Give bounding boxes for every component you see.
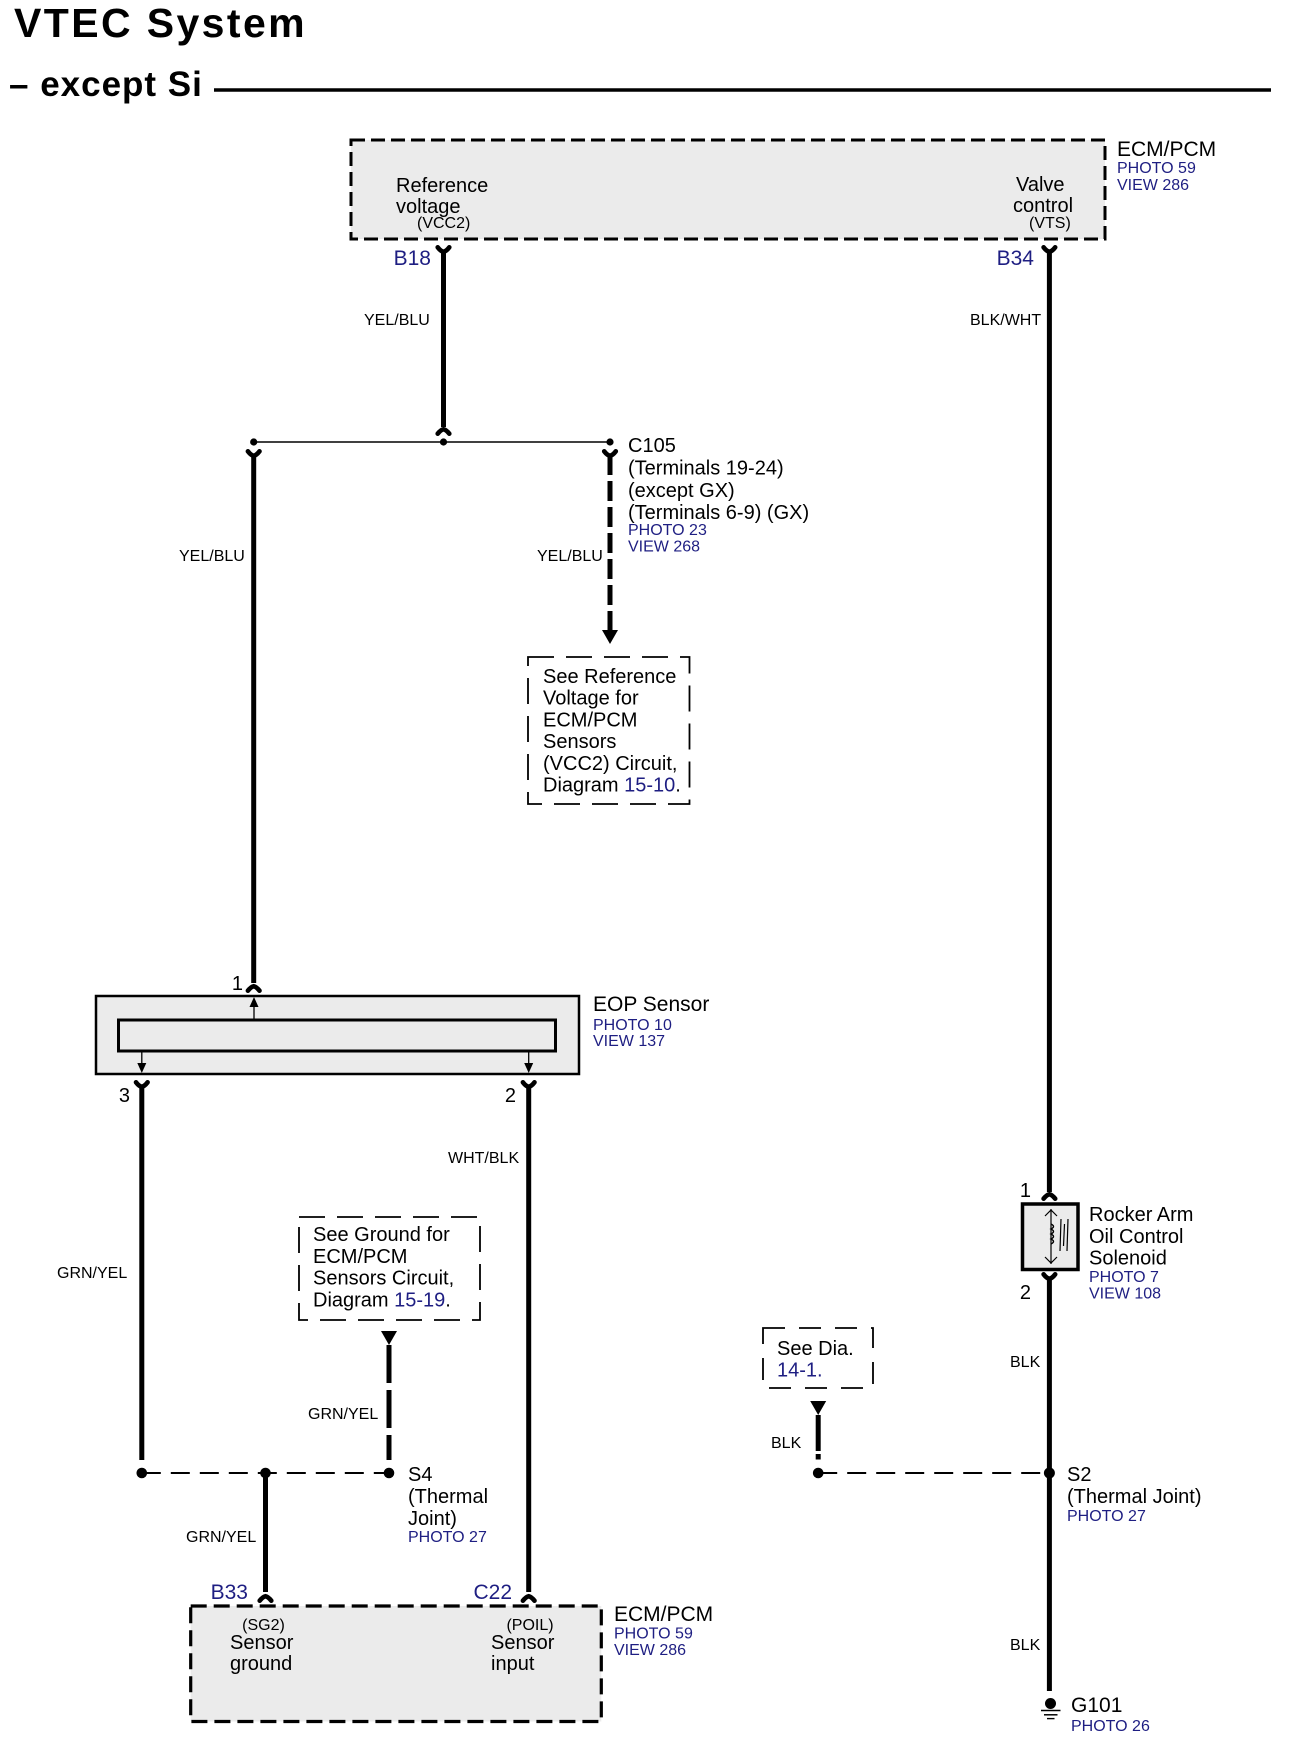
svg-text:Valve: Valve: [1016, 174, 1065, 196]
svg-text:C22: C22: [473, 1581, 512, 1604]
svg-text:B33: B33: [211, 1581, 248, 1604]
svg-text:VTEC System: VTEC System: [14, 0, 307, 46]
svg-text:GRN/YEL: GRN/YEL: [186, 1529, 256, 1546]
svg-text:Voltage for: Voltage for: [543, 688, 639, 710]
svg-text:PHOTO 26: PHOTO 26: [1071, 1718, 1150, 1735]
svg-text:S4: S4: [408, 1464, 432, 1486]
svg-text:See Reference: See Reference: [543, 666, 676, 688]
svg-text:VIEW 286: VIEW 286: [614, 1642, 686, 1659]
svg-text:PHOTO 7: PHOTO 7: [1089, 1269, 1159, 1286]
svg-text:ECM/PCM: ECM/PCM: [614, 1603, 713, 1626]
svg-text:YEL/BLU: YEL/BLU: [179, 548, 245, 565]
svg-text:14-1.: 14-1.: [777, 1360, 823, 1382]
svg-text:BLK: BLK: [1010, 1637, 1041, 1654]
svg-text:VIEW 108: VIEW 108: [1089, 1286, 1161, 1303]
svg-text:GRN/YEL: GRN/YEL: [57, 1265, 127, 1282]
svg-text:Sensors: Sensors: [543, 731, 616, 753]
svg-text:Joint): Joint): [408, 1508, 457, 1530]
svg-text:(VCC2) Circuit,: (VCC2) Circuit,: [543, 753, 677, 775]
svg-text:1: 1: [232, 973, 243, 995]
svg-text:Sensor: Sensor: [230, 1632, 294, 1654]
svg-text:Oil Control: Oil Control: [1089, 1226, 1183, 1248]
svg-text:G101: G101: [1071, 1694, 1122, 1717]
svg-text:VIEW 268: VIEW 268: [628, 539, 700, 556]
svg-text:(Thermal: (Thermal: [408, 1486, 488, 1508]
svg-text:ECM/PCM: ECM/PCM: [543, 709, 637, 731]
svg-text:1: 1: [1020, 1180, 1031, 1202]
svg-text:2: 2: [505, 1085, 516, 1107]
svg-text:BLK: BLK: [1010, 1354, 1041, 1371]
svg-text:Solenoid: Solenoid: [1089, 1248, 1167, 1270]
svg-text:control: control: [1013, 195, 1073, 217]
svg-text:PHOTO 10: PHOTO 10: [593, 1017, 672, 1034]
svg-text:(Thermal Joint): (Thermal Joint): [1067, 1486, 1201, 1508]
svg-text:(except GX): (except GX): [628, 480, 735, 502]
svg-text:3: 3: [119, 1085, 130, 1107]
svg-text:S2: S2: [1067, 1464, 1091, 1486]
svg-text:2: 2: [1020, 1282, 1031, 1304]
svg-text:See Ground for: See Ground for: [313, 1224, 450, 1246]
svg-text:Rocker Arm: Rocker Arm: [1089, 1204, 1193, 1226]
svg-text:VIEW 137: VIEW 137: [593, 1033, 665, 1050]
svg-text:PHOTO 59: PHOTO 59: [1117, 160, 1196, 177]
svg-text:VIEW 286: VIEW 286: [1117, 177, 1189, 194]
svg-text:BLK: BLK: [771, 1435, 802, 1452]
svg-text:input: input: [491, 1653, 535, 1675]
svg-text:B34: B34: [997, 247, 1035, 270]
svg-text:PHOTO 59: PHOTO 59: [614, 1626, 693, 1643]
svg-text:(VTS): (VTS): [1029, 215, 1071, 232]
svg-text:Sensor: Sensor: [491, 1632, 555, 1654]
svg-text:– except Si: – except Si: [9, 65, 203, 104]
svg-text:EOP Sensor: EOP Sensor: [593, 993, 709, 1016]
svg-text:C105: C105: [628, 435, 676, 457]
svg-text:WHT/BLK: WHT/BLK: [448, 1150, 519, 1167]
svg-text:Diagram 15-10.: Diagram 15-10.: [543, 775, 681, 797]
svg-text:PHOTO 27: PHOTO 27: [408, 1529, 487, 1546]
svg-text:(Terminals 6-9) (GX): (Terminals 6-9) (GX): [628, 502, 809, 524]
svg-text:B18: B18: [394, 247, 431, 270]
svg-text:PHOTO 23: PHOTO 23: [628, 522, 707, 539]
svg-text:ground: ground: [230, 1653, 292, 1675]
svg-text:(VCC2): (VCC2): [417, 215, 470, 232]
svg-text:(Terminals 19-24): (Terminals 19-24): [628, 458, 784, 480]
svg-text:Reference: Reference: [396, 175, 488, 197]
svg-text:Sensors Circuit,: Sensors Circuit,: [313, 1268, 454, 1290]
svg-text:ECM/PCM: ECM/PCM: [313, 1246, 407, 1268]
svg-text:Diagram 15-19.: Diagram 15-19.: [313, 1290, 451, 1312]
svg-text:BLK/WHT: BLK/WHT: [970, 312, 1041, 329]
svg-text:YEL/BLU: YEL/BLU: [537, 548, 603, 565]
svg-text:PHOTO 27: PHOTO 27: [1067, 1508, 1146, 1525]
svg-text:ECM/PCM: ECM/PCM: [1117, 138, 1216, 161]
svg-text:See Dia.: See Dia.: [777, 1338, 854, 1360]
svg-text:GRN/YEL: GRN/YEL: [308, 1406, 378, 1423]
svg-text:YEL/BLU: YEL/BLU: [364, 312, 430, 329]
